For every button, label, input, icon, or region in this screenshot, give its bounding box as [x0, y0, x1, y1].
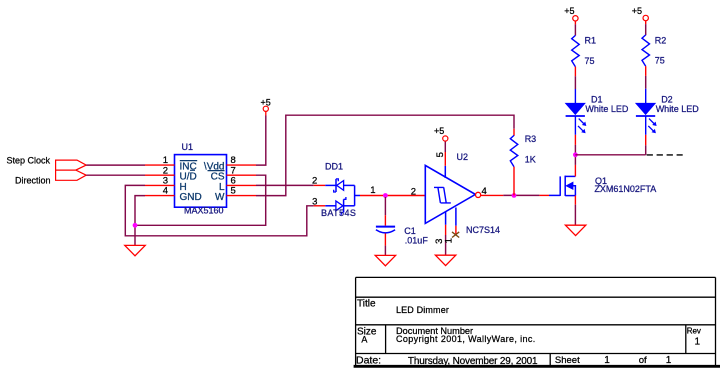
svg-text:Step Clock: Step Clock: [6, 156, 50, 166]
svg-text:5: 5: [435, 152, 446, 157]
svg-text:1: 1: [370, 185, 375, 196]
svg-text:BAT54S: BAT54S: [321, 208, 356, 218]
diode DD1 top: [314, 179, 355, 192]
svg-text:+5: +5: [260, 98, 270, 108]
svg-text:1: 1: [444, 238, 455, 243]
U2 pin 3 to ground: [434, 212, 445, 256]
port Step Clock: [6, 156, 86, 170]
svg-text:75: 75: [585, 56, 595, 66]
svg-text:Direction: Direction: [15, 175, 51, 185]
wire Step Clock to U1 pin1: [86, 164, 145, 166]
resistor R2: [642, 35, 666, 76]
svg-text:of: of: [639, 355, 647, 366]
resistor R3: [510, 129, 536, 196]
wire U2 out to Q1 gate: [481, 194, 549, 196]
wire U1 pin6 L to DD1 pin2: [256, 184, 314, 186]
svg-text:Title: Title: [357, 298, 376, 309]
U1 pin numbers right: [231, 155, 236, 197]
svg-text:ZXM61N02FTA: ZXM61N02FTA: [594, 184, 656, 194]
svg-text:White LED: White LED: [585, 104, 629, 114]
page border bottom: [354, 365, 720, 368]
svg-text:3: 3: [312, 197, 317, 208]
svg-text:1: 1: [695, 336, 701, 347]
svg-text:75: 75: [655, 56, 665, 66]
svg-text:R1: R1: [585, 36, 597, 46]
svg-text:U1: U1: [182, 142, 194, 152]
title block frame: [356, 277, 716, 366]
svg-text:Sheet: Sheet: [555, 355, 580, 366]
wire U1 pin3 H to DD1 pin3: [125, 185, 313, 235]
svg-text:C1: C1: [404, 226, 416, 236]
wire R1 to D1: [574, 76, 576, 103]
U1 pin names: [180, 161, 226, 203]
svg-text:+5: +5: [632, 6, 642, 16]
svg-text:W: W: [215, 192, 225, 203]
svg-text:1K: 1K: [525, 155, 536, 165]
svg-text:DD1: DD1: [325, 162, 343, 172]
svg-text:+5: +5: [564, 6, 574, 16]
wire D2 to node: [645, 116, 647, 155]
svg-text:Date:: Date:: [356, 355, 381, 367]
DD1 right bar and output stub: [355, 185, 360, 205]
ground U2: [435, 255, 455, 265]
svg-text:2: 2: [411, 186, 416, 197]
ground Q1: [565, 225, 585, 235]
svg-text:White LED: White LED: [656, 104, 700, 114]
svg-text:LED Dimmer: LED Dimmer: [396, 305, 449, 315]
ground C1: [375, 255, 395, 265]
inverter U2 NC7S14 schmitt trigger: [425, 152, 500, 235]
svg-text:Copyright 2001, WallyWare, inc: Copyright 2001, WallyWare, inc.: [396, 334, 536, 344]
wire U1 pin8 Vdd to +5: [256, 116, 266, 166]
svg-text:+5: +5: [434, 126, 444, 136]
junction node 1: [383, 193, 388, 198]
U2 pin numbers: [411, 186, 487, 197]
svg-text:R2: R2: [655, 35, 667, 45]
power +5 R2 branch: [632, 6, 649, 35]
wire D1 to drain node: [574, 116, 576, 155]
LED D2: [636, 95, 699, 134]
svg-text:Rev: Rev: [687, 326, 701, 335]
U2 pin 1 no-connect: [444, 208, 460, 244]
power +5 U1: [260, 98, 270, 112]
wire R2 to D2: [645, 76, 647, 103]
power +5 R1 branch: [564, 6, 578, 36]
wire Direction to U1 pin2: [86, 174, 145, 176]
svg-text:5: 5: [231, 186, 236, 197]
port Direction: [15, 170, 86, 185]
U1 pin stubs left: [145, 165, 175, 196]
junction R3 node: [512, 193, 517, 198]
dashed continuation: [647, 154, 683, 156]
transistor Q1: [549, 176, 656, 196]
svg-text:GND: GND: [180, 192, 202, 203]
capacitor C1: [376, 197, 428, 255]
svg-text:D1: D1: [591, 94, 603, 104]
junction drain node: [573, 152, 578, 157]
svg-text:2: 2: [312, 176, 317, 187]
LED D1: [566, 94, 629, 133]
svg-text:A: A: [361, 334, 367, 344]
svg-text:Thursday, November 29, 2001: Thursday, November 29, 2001: [408, 356, 538, 367]
Q1 source wire down to ground: [574, 196, 576, 226]
ground U1: [125, 245, 145, 255]
svg-text:NC7S14: NC7S14: [466, 225, 500, 235]
svg-text:1: 1: [666, 355, 672, 366]
svg-text:U2: U2: [457, 152, 469, 162]
svg-text:MAX5160: MAX5160: [184, 206, 224, 216]
U2 pin 5 to +5: [434, 126, 448, 178]
svg-text:R3: R3: [525, 134, 537, 144]
title block text: [356, 298, 701, 367]
svg-text:1: 1: [604, 355, 610, 366]
DD1 pin numbers: [312, 176, 375, 208]
wire drain node to D2 branch: [575, 154, 645, 156]
svg-text:4: 4: [163, 186, 168, 197]
resistor R1: [572, 35, 596, 76]
Q1 drain wire up: [574, 155, 576, 177]
wire U1 pin7 CS to ground net: [135, 175, 266, 225]
diode DD1 bottom: [314, 197, 355, 215]
U1 pin stubs right: [227, 165, 257, 196]
svg-text:.01uF: .01uF: [405, 235, 429, 245]
U1 pin numbers left: [163, 155, 168, 197]
wire U1 pin4 GND down: [135, 196, 145, 246]
wire DD1 out to U2 input: [360, 195, 425, 197]
junction ground net: [133, 223, 138, 228]
wire U1 pin5 W to R3: [256, 115, 514, 195]
DD1 labels: [321, 162, 356, 219]
IC U1 MAX5160 digital potentiometer: [175, 142, 227, 216]
